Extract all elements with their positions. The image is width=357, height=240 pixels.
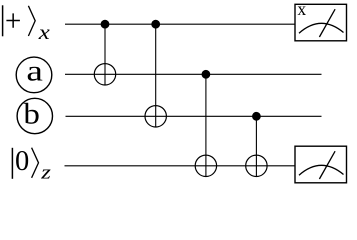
svg-text:x: x	[297, 0, 306, 19]
measurement box M2 on q3	[295, 146, 347, 183]
CNOT1 control dot on q0	[101, 20, 110, 29]
qubit label circle a	[16, 57, 52, 93]
CNOT2 target on q2	[145, 106, 166, 127]
qubit label circle b	[17, 98, 52, 133]
CNOT4 control dot on q2	[252, 112, 261, 121]
wire q3	[65, 165, 296, 167]
wire q2	[66, 115, 322, 117]
svg-text:0: 0	[15, 146, 29, 177]
CNOT2 control dot on q0	[151, 20, 160, 29]
CNOT1 target on q1	[94, 64, 115, 85]
wire q1	[65, 73, 322, 75]
meter needle of M2	[319, 151, 335, 179]
ket label |+>_x on qubit q0	[3, 5, 36, 36]
CNOT3 control dot on q1	[202, 70, 211, 79]
svg-text:b: b	[23, 97, 39, 130]
wire q0	[65, 23, 296, 25]
svg-text:z: z	[40, 161, 51, 183]
ket label |0>_z on qubit q3	[12, 148, 38, 179]
CNOT1 vertical wire (q0 to q1)	[104, 24, 106, 85]
meter needle of M1	[319, 9, 335, 37]
meter arc of M1	[299, 23, 344, 33]
CNOT3 target on q3	[195, 155, 216, 176]
CNOT4 vertical wire (q2 to q3)	[255, 116, 257, 176]
measurement box M1 on q0 (x basis)	[295, 4, 347, 41]
meter arc of M2	[299, 165, 344, 175]
CNOT3 vertical wire (q1 to q3)	[205, 74, 207, 176]
svg-text:x: x	[38, 21, 51, 44]
svg-text:a: a	[26, 55, 43, 88]
CNOT2 vertical wire (q0 to q2)	[155, 24, 157, 127]
CNOT4 target on q3	[246, 155, 267, 176]
